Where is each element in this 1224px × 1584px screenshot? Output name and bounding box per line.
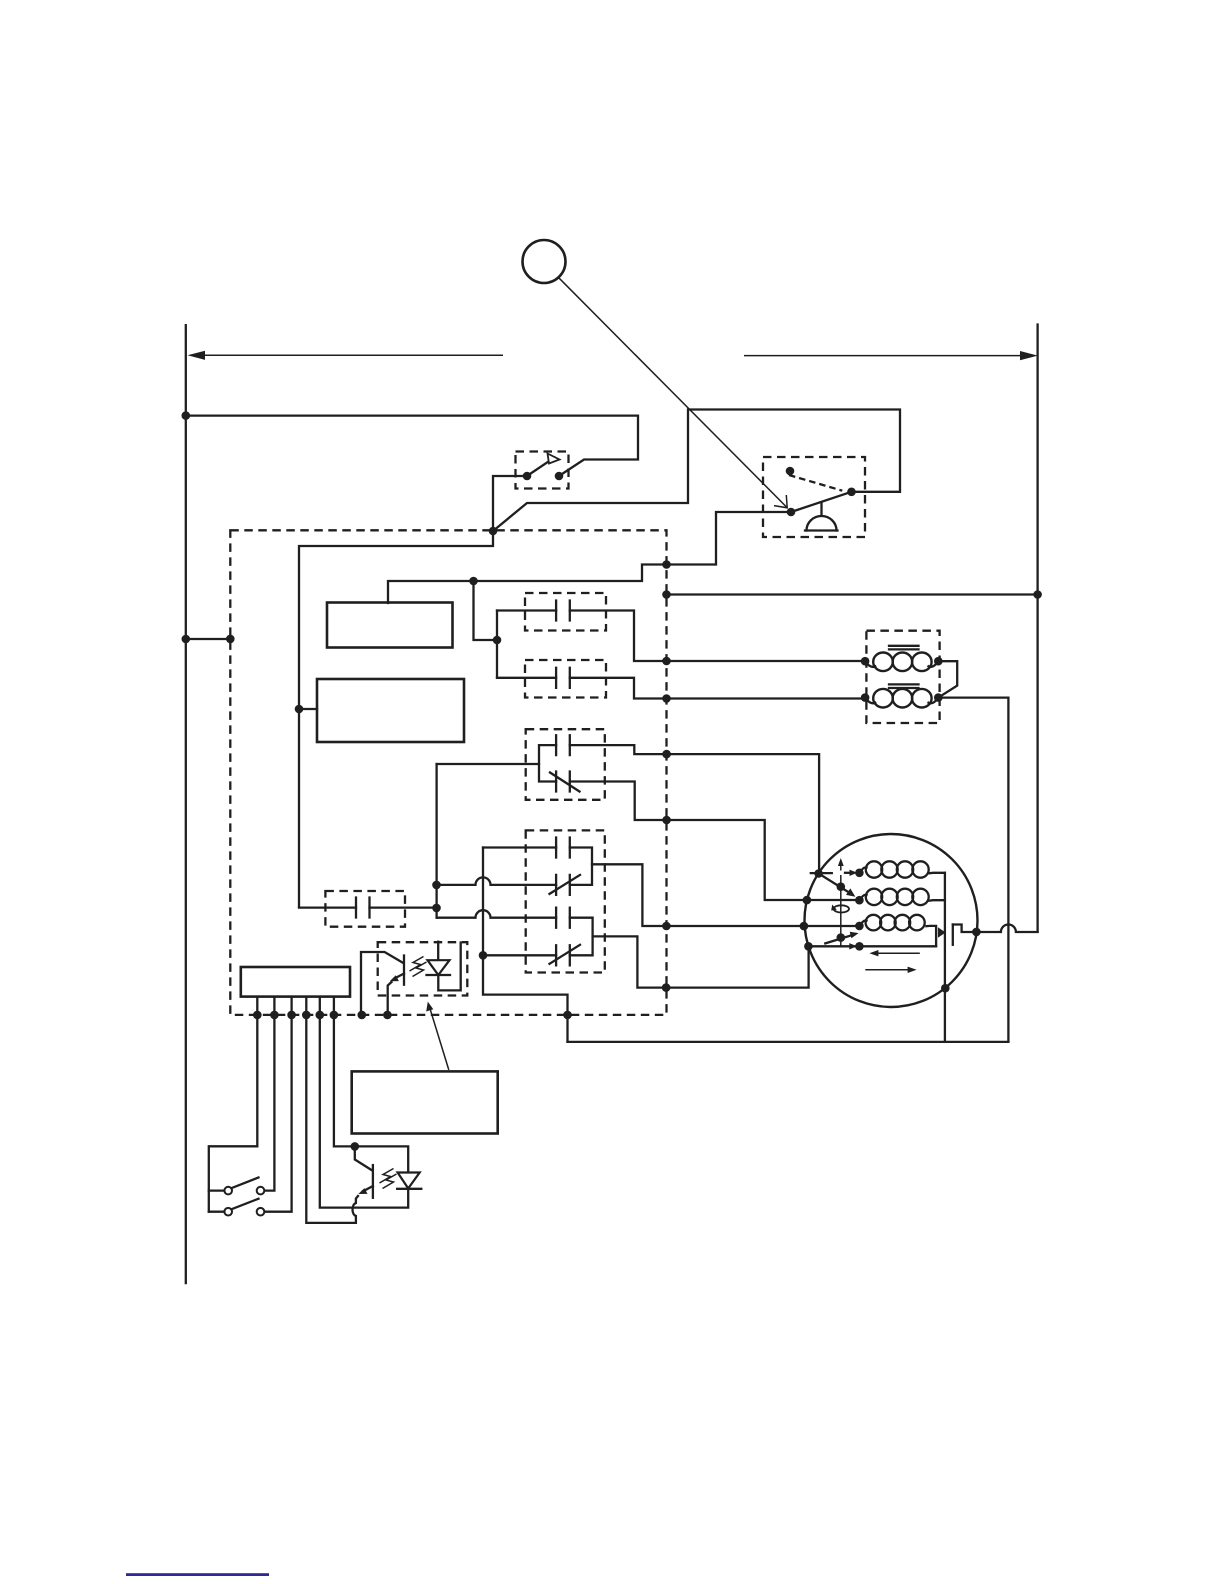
relay contact RY4d slash: [550, 945, 581, 964]
wire left supply line L: [185, 325, 187, 1283]
wire T1 series link: [938, 661, 957, 697]
photocoupler PC1 phototransistor base bar: [403, 956, 405, 985]
wire RY3a to motor governor switch: [570, 745, 819, 873]
relay contact RY4b plates: [556, 875, 570, 895]
photocoupler PC2 light arrows: [380, 1169, 394, 1184]
motor coil 3 terminal: [855, 922, 864, 931]
relay contact RY3b plates: [556, 772, 570, 792]
control unit dashed enclosure: [230, 530, 666, 1015]
governor shaft: [840, 875, 842, 946]
node on control unit left border: [226, 635, 235, 644]
dimension arrow left: [200, 354, 503, 356]
buzzer gong base line: [805, 529, 838, 531]
node PC2 anode collector junction: [351, 1142, 360, 1151]
motor coil 1 terminal: [855, 869, 864, 878]
motor M1 body circle: [805, 834, 978, 1007]
photocoupler PC1 LED triangle: [428, 960, 450, 975]
motor return terminal: [855, 942, 864, 951]
governor speed up arrow: [840, 864, 842, 871]
relay contact RY3b slash: [550, 773, 580, 792]
wire vertical tie rail RY3 to RY4c: [435, 764, 437, 918]
wire motor common down to bottom bus: [944, 873, 946, 1042]
component box B1: [327, 603, 453, 648]
node at branch of relay coil line: [469, 577, 478, 586]
connector CN1 pin 4 to PC2 emitter: [306, 997, 358, 1223]
node P on control box top border: [489, 527, 498, 536]
connector CN1 pin 6 to PC2 LED anode: [334, 997, 408, 1173]
wire stub box B2 to vertical rail: [299, 708, 317, 710]
node on line L at top wire: [182, 411, 191, 420]
motor coil 2 terminal: [855, 896, 864, 905]
photocoupler PC2 LED cathode bar: [397, 1188, 421, 1190]
wire RY4cd tap to motor return: [593, 936, 937, 987]
node pin 6 on border: [330, 1011, 339, 1020]
motor coil 1: [859, 867, 866, 872]
node pin 4 on border: [302, 1011, 311, 1020]
governor switch upper pivot tick: [811, 872, 832, 874]
wire T1 winding 2 to bottom bus: [938, 698, 1008, 1042]
node terminal on control box right border y=594: [662, 590, 671, 599]
wire RY4b input with hop: [437, 877, 557, 884]
node pin 2 on border: [270, 1011, 279, 1020]
relay contact RY4a plates: [556, 838, 570, 858]
wire node Q to RY2: [497, 677, 556, 679]
wire live feed to line N side: [667, 593, 1038, 595]
relay contact group RY3 dashed enclosure: [526, 729, 605, 800]
relay contact RY2 dashed enclosure: [525, 660, 606, 698]
node motor left terminal wire2 on circle: [803, 896, 812, 905]
wire right supply line N: [1036, 325, 1038, 595]
node motor left terminal wire4 on circle: [804, 942, 813, 951]
wire from line L to interlock switch: [186, 416, 638, 476]
node terminal on border y=987: [662, 983, 671, 992]
interlock switch S1 dashed enclosure: [516, 452, 569, 489]
node on rail at box B2: [295, 705, 304, 714]
node PC1 collector terminal on border: [358, 1011, 367, 1020]
photocoupler PC1 light arrows: [410, 957, 424, 972]
decorative blue rule: [126, 1573, 269, 1576]
connector CN1 body: [241, 967, 350, 997]
buzzer switch S2 common contact: [847, 488, 856, 497]
node on tie rail at RY4d: [479, 951, 488, 960]
node terminal on border y=754: [662, 750, 671, 759]
thermal protector contact triangle: [938, 927, 946, 938]
interlock switch S1 contacts: [523, 472, 532, 481]
photocoupler PC1 emitter lead to border: [388, 982, 392, 1015]
wire branch down to relay contact node: [474, 581, 498, 640]
node on line N at horizontal feed: [1033, 590, 1042, 599]
node motor common exits circle: [941, 984, 950, 993]
node terminal on control box right border y=564: [662, 560, 671, 569]
connector CN1 pin 2 to switch SW3: [264, 997, 274, 1191]
relay contact group RY4 dashed enclosure: [526, 830, 605, 972]
wire line L to control unit border: [186, 638, 231, 640]
relay contact RY1 plates: [556, 601, 570, 621]
wire RY4d input: [483, 954, 556, 956]
wire RY4c RY4d output tie: [570, 918, 593, 956]
wire RY4a RY4b output tie: [570, 848, 592, 885]
photocoupler PC1 LED return loop: [438, 943, 460, 991]
relay contact RY2 plates: [556, 668, 570, 688]
interlock switch S1 lever: [527, 458, 555, 477]
motor rotation arrow right: [865, 969, 911, 971]
wire RY3 left tie: [539, 745, 556, 781]
capacitor C1 plates: [356, 898, 370, 918]
wire from interlock S1 to node P on control box border: [493, 476, 527, 531]
wire RY1 to transformer winding 1: [570, 611, 865, 662]
node Q relay contacts common: [493, 636, 502, 645]
connector CN1 pin 5 to PC2 LED cathode: [320, 997, 408, 1208]
governor rotation ellipse: [834, 905, 849, 912]
buzzer gong dome: [807, 516, 837, 531]
buzzer switch S2 dashed enclosure: [763, 457, 865, 537]
component box B2: [317, 679, 464, 742]
buzzer switch S2 dashed alternate lever: [789, 475, 842, 491]
photocoupler PC2 base bar: [372, 1165, 374, 1198]
wire RY2 to transformer winding 2: [570, 678, 865, 699]
wire buzzer lower contact to control box: [388, 512, 791, 603]
transformer T1 dashed enclosure: [866, 631, 939, 723]
relay contact RY3a plates: [556, 735, 570, 755]
transformer T1 winding 1 terminals: [861, 657, 870, 666]
relay contact RY4d plates: [556, 945, 570, 965]
transformer T1 winding 1: [865, 661, 875, 667]
interlock switch S1 actuator triangle: [548, 454, 560, 464]
callout leader line to buzzer switch: [559, 278, 787, 508]
buzzer switch S2 lever: [791, 492, 852, 512]
node pin 3 on border: [287, 1011, 296, 1020]
wire node Q to RY1: [497, 609, 556, 611]
wire bottom bus: [568, 1041, 1009, 1043]
door switch SW4 lever: [232, 1199, 258, 1209]
dimension arrow right: [744, 355, 1024, 357]
transformer T1 winding 1 core bars: [889, 646, 919, 650]
relay contact RY4c plates: [556, 908, 570, 928]
motor coil 1 terminal arrow: [850, 870, 858, 876]
callout leader arrowhead: [774, 495, 787, 508]
wire RY3 input from vertical tie rail: [437, 763, 539, 765]
wire node P into control box to relay line: [299, 531, 493, 907]
wire RY3b to motor coil 2: [570, 782, 860, 901]
door switch SW3 left stub: [209, 1189, 225, 1191]
transformer T1 winding 2 core bars: [889, 684, 919, 688]
door switch SW4 terminals: [224, 1208, 232, 1216]
photocoupler PC1 LED anode lead: [437, 942, 439, 961]
connector CN1 pin 1 to door switches: [209, 997, 257, 1212]
photocoupler PC2 collector lead: [355, 1146, 372, 1170]
relay contact RY4b slash: [550, 875, 581, 894]
callout balloon circle: [523, 240, 566, 283]
motor rotation arrow left: [874, 952, 920, 954]
thermal protector body step and wire to line N with hop: [953, 925, 1038, 933]
capacitor C1 dashed enclosure: [325, 891, 405, 927]
connector CN1 pin 3 to switch SW4: [264, 997, 292, 1212]
node motor left terminal wire3 on circle: [800, 922, 809, 931]
wire RY4ab tap to motor coil 3: [592, 864, 859, 926]
node terminal on border y=698: [662, 694, 671, 703]
buzzer switch S2 lower contact: [787, 508, 796, 517]
wire RY4c input with hop: [437, 910, 556, 917]
wire right line N lower run: [1036, 595, 1038, 932]
node bus terminal on bottom border: [563, 1011, 572, 1020]
wire relay line to C1: [299, 906, 356, 908]
buzzer switch S2 upper fixed contact: [786, 467, 795, 476]
photocoupler PC1 phototransistor collector wire: [361, 952, 403, 1015]
wire RY4a input: [483, 846, 556, 848]
node on line L at control box feed: [182, 635, 191, 644]
node PC1 emitter terminal on border: [383, 1011, 392, 1020]
node pin 1 on border: [253, 1011, 262, 1020]
motor coil 2: [859, 895, 866, 900]
node governor shaft on upper lever: [837, 882, 846, 891]
photocoupler PC1 dashed enclosure: [378, 942, 468, 995]
transformer T1 winding 2: [865, 698, 875, 704]
door switch SW3 lever: [232, 1178, 258, 1188]
photocoupler PC1 phototransistor emitter: [395, 974, 405, 979]
wire left tie rail of RY4 group: [483, 848, 568, 1042]
motor coil 3: [859, 920, 866, 925]
node on tie rail at capacitor C1: [432, 904, 441, 913]
photocoupler PC2 LED triangle: [398, 1173, 420, 1189]
node terminal on border y=926: [662, 922, 671, 931]
node pin 5 on border: [316, 1011, 325, 1020]
governor switch upper lever: [819, 874, 851, 894]
wire node P to buzzer switch common: [493, 410, 900, 532]
relay contact RY1 dashed enclosure: [525, 593, 606, 631]
wire C1 to tie rail: [370, 906, 437, 908]
photocoupler PC1 LED cathode bar: [427, 974, 451, 976]
motor return terminal arrow: [849, 943, 857, 949]
node governor shaft on lower lever: [837, 933, 846, 942]
governor switch lower lever: [825, 934, 854, 943]
buzzer hammer stem: [820, 503, 822, 516]
node protector wire exits circle: [972, 928, 981, 937]
label box B3 arrow to PC1: [430, 1008, 449, 1070]
transformer T1 winding 2 terminals: [861, 693, 870, 702]
photocoupler PC2 emitter: [363, 1186, 373, 1191]
node on tie rail at RY4b: [432, 881, 441, 890]
node terminal on border y=820: [662, 816, 671, 825]
node terminal on border y=661: [662, 657, 671, 666]
node motor terminal wire1 at governor pivot: [814, 869, 823, 878]
wire node Q vertical tie: [496, 611, 498, 678]
thermal protector electrode bar: [952, 925, 954, 945]
label box B3: [352, 1071, 498, 1133]
door switch SW4 left stub: [209, 1211, 225, 1213]
door switch SW3 terminals: [224, 1187, 232, 1195]
